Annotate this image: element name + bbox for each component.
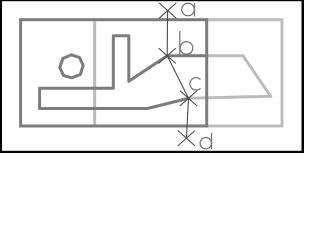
ghost trapezoid top edge (light template) (207, 54, 243, 57)
octagon hole (sketched circle) (60, 55, 83, 78)
outer rectangle (dark drawn) (21, 20, 207, 126)
profile polyline (dark drawn contour) (40, 36, 207, 109)
node d marker (x) (178, 131, 195, 146)
ghost vertical construction line x=94.6 (light template) (93, 21, 96, 124)
node a marker (x) (159, 3, 176, 18)
ghost trapezoid bottom edge (light template) (189, 96, 271, 98)
construction line b-c (167, 56, 188, 99)
ghost trapezoid diagonal edge (light template) (243, 56, 271, 97)
node c marker (x) (180, 91, 197, 106)
construction line a-b (166, 11, 168, 56)
label a (182, 3, 195, 17)
label b (180, 31, 193, 54)
construction line c-d (186, 98, 188, 138)
screenshot frame border (0, 0, 304, 153)
label d (200, 133, 211, 149)
node b marker (x) (159, 48, 176, 63)
label c (190, 78, 201, 90)
ghost rectangle right portion (light template) (207, 20, 282, 126)
